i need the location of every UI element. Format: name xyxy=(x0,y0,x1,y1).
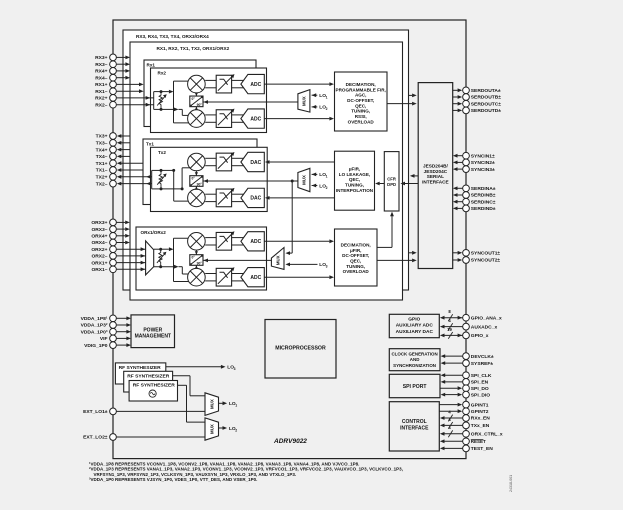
pin SPI_CLK xyxy=(441,372,492,379)
phase splitter ORx 0/90 xyxy=(190,255,203,266)
pin VDDA_1P0&#179; xyxy=(81,328,131,335)
wire LO1 out xyxy=(219,401,228,405)
pin SYNCIN2&#177; xyxy=(453,159,495,166)
svg-text:ORX_CTRL_x: ORX_CTRL_x xyxy=(471,432,503,438)
pin TEST_EN xyxy=(440,445,493,452)
wire Tx LO mux output xyxy=(203,179,298,183)
box ORx1/ORx2 xyxy=(136,227,267,290)
pin ORX4+ xyxy=(91,232,129,239)
svg-text:EXT_LO2±: EXT_LO2± xyxy=(83,435,108,441)
svg-text:1: 1 xyxy=(235,404,237,408)
svg-text:TUNING,: TUNING, xyxy=(346,264,365,269)
mux Tx LO select xyxy=(298,168,310,191)
svg-text:SPI_EN: SPI_EN xyxy=(471,380,489,386)
pin SYNCIN1&#177; xyxy=(453,152,495,159)
text control interface xyxy=(400,419,429,431)
svg-text:INTERPOLATION: INTERPOLATION xyxy=(336,188,374,193)
svg-text:TEST_EN: TEST_EN xyxy=(471,446,493,452)
svg-text:90°: 90° xyxy=(197,103,203,107)
wire Tx DSP to Q DAC xyxy=(265,196,335,200)
pin SERDOUTD&#177; xyxy=(453,107,502,114)
oscillator symbol xyxy=(149,390,156,397)
svg-text:DC-OFFSET,: DC-OFFSET, xyxy=(342,253,369,258)
svg-text:2: 2 xyxy=(326,186,328,190)
svg-text:ORX2+: ORX2+ xyxy=(91,247,107,253)
DAC Tx I xyxy=(241,152,264,171)
pin SPI_DO xyxy=(440,385,489,392)
filter Rx Q programmable xyxy=(216,109,234,128)
svg-text:TXx_EN: TXx_EN xyxy=(471,423,490,429)
svg-text:MANAGEMENT: MANAGEMENT xyxy=(135,334,171,340)
mux ORx LO select xyxy=(271,248,284,270)
wire ORx I filter to ADC (diff pair) xyxy=(232,238,245,245)
outer channel group box RX3/RX4/TX3/TX4/ORX3/ORX4 xyxy=(123,30,409,290)
svg-text:DAC: DAC xyxy=(250,196,261,202)
svg-text:VRFSYN1_1P3, VRFSYN2_1P3, VCLK: VRFSYN1_1P3, VRFSYN2_1P3, VCLKSYN_1P3, V… xyxy=(94,472,297,477)
pin ORX3+ xyxy=(91,219,129,226)
svg-text:μFIR,: μFIR, xyxy=(350,248,362,253)
svg-text:1: 1 xyxy=(326,175,328,179)
wire LO2 to Rx mux xyxy=(312,105,318,109)
pin EXT_LO1&#177; xyxy=(83,408,205,415)
svg-text:AUXADC_x: AUXADC_x xyxy=(471,324,498,330)
block Rx DSP xyxy=(335,72,388,131)
box Tx1 xyxy=(143,139,257,205)
svg-text:90°: 90° xyxy=(197,182,203,186)
mixer Tx Q xyxy=(188,189,206,207)
block GPIO auxiliary converters xyxy=(389,314,439,337)
mixer Tx I xyxy=(188,153,206,171)
wire Rx LO to I mixer xyxy=(195,93,198,96)
wire ORx top rail xyxy=(154,247,174,251)
svg-text:SPI_CLK: SPI_CLK xyxy=(471,373,492,379)
svg-text:RX2+: RX2+ xyxy=(95,96,108,102)
svg-text:TX1–: TX1– xyxy=(96,168,108,174)
text Tx DSP xyxy=(336,166,374,193)
svg-text:LO LEAKAGE,: LO LEAKAGE, xyxy=(339,172,370,177)
node Tx rail A xyxy=(172,169,175,172)
mixer Rx Q xyxy=(188,110,206,128)
svg-text:VDDA_1P8¹: VDDA_1P8¹ xyxy=(81,316,108,322)
pin VDDA_1P3&#178; xyxy=(81,322,131,329)
svg-text:ORX1–: ORX1– xyxy=(91,267,107,273)
node Tx LO tap xyxy=(291,180,294,183)
mixer ORx Q xyxy=(188,268,206,286)
text power management xyxy=(135,327,171,339)
mux Rx LO select xyxy=(298,90,310,113)
block microprocessor xyxy=(265,320,336,379)
svg-text:SERDOUTC±: SERDOUTC± xyxy=(471,101,501,107)
svg-text:Rx1: Rx1 xyxy=(147,62,156,67)
wire Rx Q filter to ADC (diff pair) xyxy=(232,115,245,122)
svg-text:24318-001: 24318-001 xyxy=(509,475,513,492)
pin SERDOUTB&#177; xyxy=(453,94,502,101)
svg-text:19: 19 xyxy=(447,327,452,332)
wire ORx LO mux output xyxy=(203,259,271,263)
svg-text:GPIO_x: GPIO_x xyxy=(471,333,489,339)
pin VIF xyxy=(100,335,131,342)
svg-text:ORX1+: ORX1+ xyxy=(91,260,107,266)
svg-text:INTERFACE: INTERFACE xyxy=(400,425,429,431)
filter Tx Q xyxy=(216,188,234,207)
wire CFR to Tx DSP xyxy=(375,182,384,186)
svg-text:SYNCOUT2±: SYNCOUT2± xyxy=(471,258,501,264)
ADC Rx I xyxy=(241,74,264,93)
pin ORX4&#8211; xyxy=(91,239,129,246)
svg-text:ADC: ADC xyxy=(250,239,261,245)
wire Rx LO to Q mixer xyxy=(195,107,198,110)
box Rx2 xyxy=(151,68,267,133)
wire Tx LO to Q mixer xyxy=(195,186,198,189)
wire ORx Q mixer to filter (diff pair) xyxy=(205,274,216,281)
block Tx DSP xyxy=(335,151,375,210)
wire Tx Q mixer to top rail xyxy=(174,170,191,201)
svg-text:SERDOUTD±: SERDOUTD± xyxy=(471,108,501,114)
wire LO2 out xyxy=(219,426,228,430)
pin ORX_CTRL_x xyxy=(440,425,503,437)
Rx input splitter bracket xyxy=(154,92,161,110)
svg-text:Tx2: Tx2 xyxy=(158,150,166,155)
svg-text:RF SYNTHESIZER: RF SYNTHESIZER xyxy=(119,365,162,371)
wire JESD to CFR xyxy=(400,182,418,186)
wire Tx I mixer to bottom rail xyxy=(182,168,191,189)
svg-text:DECIMATION,: DECIMATION, xyxy=(346,82,376,87)
svg-text:RX1+: RX1+ xyxy=(95,82,108,88)
svg-text:GPIO: GPIO xyxy=(408,316,420,322)
pin TX2+ xyxy=(96,173,152,180)
pin SERDINB&#177; xyxy=(453,192,496,199)
pin ORX2&#8211; xyxy=(91,253,145,260)
pin RX1&#8211; xyxy=(95,88,143,95)
svg-text:POWER: POWER xyxy=(143,327,162,333)
attenuator ORx front-end xyxy=(157,249,167,267)
svg-text:CONTROL: CONTROL xyxy=(402,419,427,425)
attenuator Tx output xyxy=(157,170,167,189)
node Rx attenuator bottom xyxy=(160,108,163,111)
text clock generation xyxy=(391,352,437,368)
filter Tx I xyxy=(216,152,234,171)
ADC Rx Q xyxy=(241,109,264,128)
svg-text:ADC: ADC xyxy=(250,275,261,281)
svg-text:ORx1/ORx2: ORx1/ORx2 xyxy=(141,230,167,235)
ADC ORx I xyxy=(241,232,264,251)
svg-text:QEC,: QEC, xyxy=(350,259,361,264)
svg-text:SPI PORT: SPI PORT xyxy=(403,384,428,390)
pin GPIO_x xyxy=(440,327,489,339)
mixer ORx I xyxy=(188,233,206,251)
wire ORx split vertical xyxy=(174,238,191,281)
node Rx attenuator top xyxy=(160,90,163,93)
pin ORX3&#8211; xyxy=(91,226,129,233)
svg-text:3: 3 xyxy=(234,367,236,371)
pin RX3+ xyxy=(95,54,130,61)
pin TX4+ xyxy=(96,146,130,153)
svg-text:TX4–: TX4– xyxy=(96,154,108,160)
block SPI port xyxy=(389,374,440,397)
block clock generation xyxy=(389,349,440,371)
mux LO2 select xyxy=(205,418,219,440)
svg-text:CFR: CFR xyxy=(387,176,396,181)
mux LO1 select xyxy=(205,393,219,416)
svg-text:RSSI,: RSSI, xyxy=(355,114,367,119)
svg-text:DPD: DPD xyxy=(387,182,396,187)
svg-text:²VDDA_1P3 REPRESENTS VANA1_1P3: ²VDDA_1P3 REPRESENTS VANA1_1P3, VANA2_1P… xyxy=(89,467,403,472)
pin VDIG_1P0 xyxy=(84,342,131,349)
pin RXx_EN xyxy=(440,409,490,421)
svg-text:TUNING,: TUNING, xyxy=(351,109,370,114)
pin SERDINC&#177; xyxy=(453,198,496,205)
svg-text:3: 3 xyxy=(326,265,328,269)
inner channel group box RX1/RX2/TX1/TX2/ORX1/ORX2 xyxy=(130,42,403,300)
svg-text:SYNCHRONIZATION: SYNCHRONIZATION xyxy=(393,363,436,368)
box Rx1 xyxy=(144,60,256,127)
svg-text:JESD204C: JESD204C xyxy=(424,169,448,174)
svg-text:SPI_DO: SPI_DO xyxy=(471,386,489,392)
pin ORX1+ xyxy=(91,259,145,266)
svg-text:TX4+: TX4+ xyxy=(96,147,108,153)
wire LO3 output xyxy=(166,365,226,369)
svg-text:RX3, RX4, TX3, TX4, ORX3/ORX4: RX3, RX4, TX3, TX4, ORX3/ORX4 xyxy=(136,34,209,39)
svg-text:INTERFACE: INTERFACE xyxy=(422,180,449,185)
svg-text:MUX: MUX xyxy=(209,424,214,434)
wire Tx DSP to I DAC xyxy=(265,160,335,164)
pin SERDIND&#177; xyxy=(453,205,496,212)
pin EXT_LO2&#177; xyxy=(83,434,205,441)
block RF synthesizer 1 xyxy=(129,381,177,402)
svg-text:SERDINA±: SERDINA± xyxy=(471,186,496,192)
svg-text:MUX: MUX xyxy=(302,175,307,185)
svg-text:RX3–: RX3– xyxy=(95,62,108,68)
pin TX2&#8211; xyxy=(96,180,152,187)
pin RESET (active low) xyxy=(440,438,486,445)
svg-text:RX2–: RX2– xyxy=(95,102,108,108)
pin SYNCOUT2&#177; xyxy=(453,257,501,264)
svg-text:VDDA_1P3²: VDDA_1P3² xyxy=(81,323,108,329)
wire Rx bottom rail xyxy=(161,108,188,116)
svg-text:ORX4–: ORX4– xyxy=(91,240,107,246)
svg-text:GPINT2: GPINT2 xyxy=(471,409,489,415)
svg-text:QEC,: QEC, xyxy=(355,103,366,108)
pin RX2&#8211; xyxy=(95,101,153,108)
pin ORX1&#8211; xyxy=(91,266,145,273)
block control interface xyxy=(389,402,439,451)
pin SPI_EN xyxy=(441,379,489,386)
wire Rx DSP to JESD xyxy=(387,102,417,106)
svg-text:VDDA_1P0³: VDDA_1P0³ xyxy=(81,329,108,335)
wire ORx bottom rail xyxy=(154,265,189,274)
pin SERDINA&#177; xyxy=(453,185,496,192)
node Tx rail B xyxy=(181,187,184,190)
wire synth2 to MUX1 xyxy=(173,376,205,396)
svg-text:EXT_LO1±: EXT_LO1± xyxy=(83,409,108,415)
svg-text:¹VDDA_1P8 REPRESENTS VCONV1_1P: ¹VDDA_1P8 REPRESENTS VCONV1_1P8, VCONV2_… xyxy=(89,461,359,466)
svg-text:TX1+: TX1+ xyxy=(96,161,108,167)
block RF synthesizer 2 xyxy=(124,371,173,392)
pin DEVCLK&#177; xyxy=(441,353,494,360)
svg-text:SERDOUTB±: SERDOUTB± xyxy=(471,95,501,101)
pin RX4+ xyxy=(95,68,130,75)
svg-text:90°: 90° xyxy=(197,261,203,265)
svg-text:RXx_EN: RXx_EN xyxy=(471,416,490,422)
text Rx DSP xyxy=(336,82,386,124)
Tx output bracket xyxy=(152,170,161,189)
pin TX4&#8211; xyxy=(96,153,130,160)
pin TX3&#8211; xyxy=(96,139,130,146)
svg-text:MICROPROCESSOR: MICROPROCESSOR xyxy=(275,346,326,352)
wire ORx DSP to CFR/DPD xyxy=(377,212,394,248)
wire synth1 to MUX2 xyxy=(178,385,206,422)
svg-text:DAC: DAC xyxy=(250,160,261,166)
wire Tx I DAC to filter (diff pair) xyxy=(232,158,245,165)
pin ORX2+ xyxy=(91,246,145,253)
phase splitter Tx 0/90 xyxy=(190,176,203,187)
svg-text:ADRV9022: ADRV9022 xyxy=(273,438,307,445)
svg-text:VIF: VIF xyxy=(100,336,108,342)
wire ORx DSP to JESD xyxy=(377,259,417,263)
svg-text:JESD204B/: JESD204B/ xyxy=(423,163,448,168)
svg-text:³VDDA_1P0 REPRESENTS VJSYN_1P0: ³VDDA_1P0 REPRESENTS VJSYN_1P0, VDES_1P0… xyxy=(89,477,257,482)
svg-text:MUX: MUX xyxy=(209,399,214,409)
wire LO3 to ORx mux xyxy=(285,263,317,267)
pin TX1&#8211; xyxy=(96,167,143,174)
svg-text:SYSREF±: SYSREF± xyxy=(471,361,494,367)
node Tx attenuator top xyxy=(160,169,163,172)
svg-text:SERDOUTA±: SERDOUTA± xyxy=(471,88,501,94)
svg-text:SERIAL: SERIAL xyxy=(427,174,444,179)
ADC ORx Q xyxy=(241,268,264,287)
box Tx2 xyxy=(151,147,268,211)
node Tx attenuator bottom xyxy=(160,187,163,190)
svg-text:RX4–: RX4– xyxy=(95,75,108,81)
wire ORx Q filter to ADC (diff pair) xyxy=(232,274,245,281)
svg-text:SERDINC±: SERDINC± xyxy=(471,199,496,205)
svg-text:AUXILIARY ADC: AUXILIARY ADC xyxy=(396,323,434,329)
svg-text:GPIO_ANA_x: GPIO_ANA_x xyxy=(471,315,502,321)
svg-text:ADC: ADC xyxy=(250,82,261,88)
wire Tx top rail xyxy=(161,169,174,171)
svg-text:AGC,: AGC, xyxy=(355,93,366,98)
svg-text:2: 2 xyxy=(326,107,328,111)
pin AUXADC_x xyxy=(440,318,498,330)
block ORx DSP xyxy=(335,229,378,286)
filter Rx I programmable xyxy=(216,74,234,93)
wire JESD to back-group Tx xyxy=(410,174,418,178)
svg-text:VDIG_1P0: VDIG_1P0 xyxy=(84,343,108,349)
pin GPINT2 xyxy=(439,408,488,415)
attenuator Rx front-end xyxy=(157,92,167,110)
svg-text:RX1–: RX1– xyxy=(95,89,108,95)
pin SERDOUTC&#177; xyxy=(453,100,502,107)
block RF synthesizer 3 (aux) xyxy=(115,363,165,384)
svg-text:AND: AND xyxy=(410,357,420,362)
DAC Tx Q xyxy=(241,188,264,207)
wire Rx Q ADC to DSP xyxy=(264,117,334,121)
pin TXx_EN xyxy=(440,417,490,429)
svg-text:OVERLOAD: OVERLOAD xyxy=(348,119,375,124)
svg-text:RF SYNTHESIZER: RF SYNTHESIZER xyxy=(133,383,176,389)
svg-text:PROGRAMMABLE FIR,: PROGRAMMABLE FIR, xyxy=(336,87,386,92)
wire ORx LO to Q mixer xyxy=(195,265,198,268)
svg-text:ADC: ADC xyxy=(250,116,261,122)
wire back-group ORx data to JESD xyxy=(409,251,417,255)
text ORx DSP xyxy=(341,243,371,275)
wire Tx I filter to mixer (diff pair) xyxy=(205,158,216,165)
svg-text:AUXILIARY DAC: AUXILIARY DAC xyxy=(396,329,434,335)
svg-text:ORX3+: ORX3+ xyxy=(91,220,107,226)
wire Rx I mixer to filter (diff pair) xyxy=(205,80,216,87)
pin RX1+ xyxy=(95,81,143,88)
svg-text:DEVCLK±: DEVCLK± xyxy=(471,354,494,360)
node ORx attenuator bottom xyxy=(159,265,162,268)
wire back-group Rx data to JESD xyxy=(409,94,417,98)
svg-text:GPINT1: GPINT1 xyxy=(471,402,489,408)
svg-text:ORX2–: ORX2– xyxy=(91,254,107,260)
wire Tx Q filter to mixer (diff pair) xyxy=(205,194,216,201)
wire ORx Q ADC to DSP xyxy=(264,275,334,279)
svg-text:Tx1: Tx1 xyxy=(146,141,154,146)
svg-text:μFIR,: μFIR, xyxy=(349,166,361,171)
pin VDDA_1P8&#185; xyxy=(81,315,131,322)
svg-text:SYNCOUT1±: SYNCOUT1± xyxy=(471,251,501,257)
svg-text:TX3+: TX3+ xyxy=(96,134,108,140)
svg-text:DC-OFFSET,: DC-OFFSET, xyxy=(347,98,374,103)
svg-text:RX4+: RX4+ xyxy=(95,69,108,75)
svg-text:SYNCIN3±: SYNCIN3± xyxy=(471,167,495,173)
svg-text:RF SYNTHESIZER: RF SYNTHESIZER xyxy=(127,373,170,379)
svg-text:CLOCK GENERATION: CLOCK GENERATION xyxy=(391,352,437,357)
svg-text:QEC,: QEC, xyxy=(349,177,360,182)
wire Tx LO to ORx mux xyxy=(285,181,292,255)
svg-text:MUX: MUX xyxy=(275,255,280,265)
svg-text:RX1, RX2, TX1, TX2, ORX1/ORX2: RX1, RX2, TX1, TX2, ORX1/ORX2 xyxy=(157,46,230,51)
mixer Rx I xyxy=(188,75,206,93)
wire Rx top rail to split xyxy=(161,90,174,94)
pin GPIO_ANA_x xyxy=(440,309,502,321)
svg-text:SERDINB±: SERDINB± xyxy=(471,193,496,199)
svg-text:DECIMATION,: DECIMATION, xyxy=(341,243,371,248)
svg-text:2: 2 xyxy=(235,428,237,432)
text JESD204 xyxy=(422,163,449,184)
svg-text:TX2+: TX2+ xyxy=(96,175,108,181)
svg-text:SERDIND±: SERDIND± xyxy=(471,206,496,212)
wire Rx I ADC to DSP xyxy=(264,82,334,86)
pin SYNCIN3&#177; xyxy=(453,166,495,173)
selector ORx input xyxy=(146,241,154,275)
svg-text:TUNING,: TUNING, xyxy=(345,183,364,188)
svg-text:1: 1 xyxy=(326,96,328,100)
wire Rx LO mux output xyxy=(203,100,298,104)
wire LO2 to Tx mux xyxy=(312,184,318,188)
wire Tx LO to I mixer xyxy=(195,171,198,176)
pin SYNCOUT1&#177; xyxy=(453,249,501,256)
wire Tx Q DAC to filter (diff pair) xyxy=(232,194,245,201)
svg-text:Rx2: Rx2 xyxy=(158,71,167,76)
svg-text:SPI_DIO: SPI_DIO xyxy=(471,392,490,398)
wire ORx I mixer to filter (diff pair) xyxy=(205,238,216,245)
pin RX4&#8211; xyxy=(95,74,130,81)
svg-text:SYNCIN1±: SYNCIN1± xyxy=(471,153,495,159)
text GPIO block xyxy=(396,316,434,334)
svg-text:TX2–: TX2– xyxy=(96,181,108,187)
pin SYSREF&#177; xyxy=(441,360,494,367)
block CFR DPD xyxy=(384,152,399,211)
pin GPINT1 xyxy=(439,401,488,408)
chip boundary ADRV9022 xyxy=(113,20,466,459)
block JESD204 serial interface xyxy=(418,83,453,269)
filter ORx I xyxy=(216,231,234,250)
wire Tx bottom rail xyxy=(161,188,182,190)
svg-text:TX3–: TX3– xyxy=(96,141,108,147)
